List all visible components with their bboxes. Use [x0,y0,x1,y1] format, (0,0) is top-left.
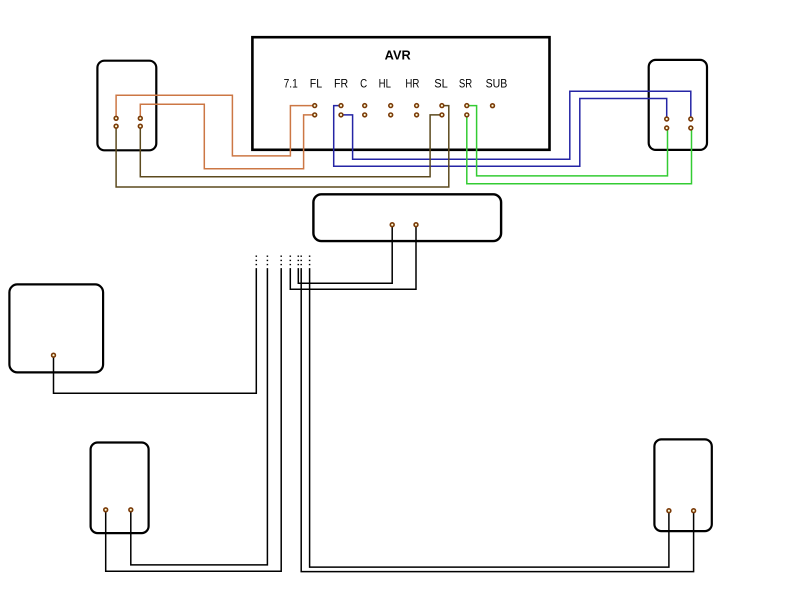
svg-text:SUB: SUB [486,76,508,90]
wire FL+ orange AVR to front-left speaker [116,95,315,156]
terminal front-right speaker 2 [689,117,693,121]
svg-text:SR: SR [459,76,473,90]
svg-text:HL: HL [379,76,392,90]
wire FL- orange AVR to front-left speaker [140,104,314,169]
terminal front-right speaker 3 [665,126,669,130]
wire surround-right A dotted continuation [309,255,311,269]
terminal front-left speaker 2 [138,116,142,120]
terminal AVR HR+ [415,104,419,108]
wire center speaker 2 dotted continuation [289,255,291,269]
wire surround-left A black [106,270,282,572]
terminal AVR FR+ [339,104,343,108]
terminal AVR SR+ [465,104,469,108]
wire surround-right B dotted continuation [300,255,302,269]
terminal surround-right speaker 2 [692,509,696,513]
speaker box front-left [97,61,156,151]
terminal AVR SUB [491,104,495,108]
terminal AVR FR- [339,113,343,117]
wire surround-left B black [131,270,268,565]
wire subwoofer dotted continuation [255,255,257,269]
terminal AVR HL- [389,113,393,117]
wire center speaker 1 dotted continuation [297,255,299,269]
wire subwoofer black [54,270,257,394]
subwoofer box [9,284,103,372]
AVR receiver box U1 [252,37,549,150]
terminal AVR FL+ [313,104,317,108]
wire FR- navy AVR to front-right speaker [341,91,691,159]
speaker box center [313,194,501,241]
terminal AVR SR- [465,113,469,117]
terminal AVR SL- [440,113,444,117]
terminal AVR FL- [313,113,317,117]
terminal front-right speaker 4 [689,126,693,130]
svg-text:AVR: AVR [385,49,411,63]
wire SL- brown AVR to front-left speaker lower posts [140,115,442,177]
wire surround-left A dotted continuation [280,255,282,269]
terminal front-left speaker 4 [138,124,142,128]
wire SR+ green AVR to front-right speaker lower posts [467,106,668,176]
terminal surround-right speaker 1 [667,509,671,513]
terminal AVR C- [363,113,367,117]
terminal subwoofer [52,353,56,357]
terminal surround-left speaker 1 [104,508,108,512]
wire surround-left B dotted continuation [266,255,268,269]
terminal surround-left speaker 2 [129,508,133,512]
svg-text:FL: FL [310,76,323,90]
svg-text:FR: FR [334,76,348,90]
terminal AVR HR- [415,113,419,117]
wire SL+ brown AVR to front-left speaker lower posts [116,106,449,187]
wire center speaker 2 black [290,225,416,290]
terminal AVR HL+ [389,104,393,108]
terminal front-left speaker 1 [114,116,118,120]
svg-text:HR: HR [405,76,419,90]
wire surround-right A black [310,270,669,568]
svg-text:C: C [360,76,367,90]
svg-text:7.1: 7.1 [284,76,298,90]
terminal front-left speaker 3 [114,124,118,128]
svg-text:SL: SL [434,76,448,90]
terminal AVR SL+ [440,104,444,108]
wire FR+ navy AVR to front-right speaker [334,99,667,167]
terminal center speaker 2 [414,223,418,227]
terminal front-right speaker 1 [665,117,669,121]
terminal AVR C+ [363,104,367,108]
wire SR- green AVR to front-right speaker lower posts [467,115,692,184]
wire center speaker 1 black [298,225,392,284]
speaker box front-right [649,60,707,150]
wire surround-right B black [301,270,693,572]
terminal center speaker 1 [390,223,394,227]
speaker box surround-left [91,443,149,534]
speaker box surround-right [654,439,711,531]
